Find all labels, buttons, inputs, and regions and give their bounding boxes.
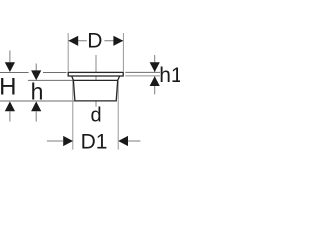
h1 bottom arrow: [150, 76, 160, 86]
D1 left arrow: [63, 136, 73, 146]
h1 extension line top: [125, 71, 160, 73]
h1 extension line bottom: [125, 75, 160, 77]
left chamfer: [72, 76, 74, 80]
h top extension line (internal line extended left): [28, 79, 74, 81]
body bottom extension line (H/h bottom reference): [0, 100, 75, 102]
svg-text:h1: h1: [159, 64, 180, 87]
D1 dimension left tail: [47, 140, 63, 142]
flange top extension line (H top reference): [0, 72, 29, 74]
h1 dimension vertical line: [154, 55, 156, 72]
svg-text:d: d: [90, 105, 101, 127]
D right extension line: [122, 33, 124, 71]
body outline: [73, 80, 117, 101]
D left extension line: [67, 33, 69, 71]
D right arrow: [113, 36, 123, 46]
H bottom arrow: [5, 101, 15, 111]
flange outline: [68, 72, 123, 76]
D1 dimension right tail: [128, 140, 140, 142]
H top arrow: [5, 62, 15, 72]
centerline: [95, 55, 97, 107]
svg-text:h: h: [31, 78, 44, 104]
D1 left extension line: [72, 81, 74, 150]
h bottom tail: [35, 111, 37, 122]
svg-text:D: D: [87, 30, 102, 53]
H dimension top tail: [9, 51, 11, 64]
D dimension line left segment: [68, 40, 86, 42]
svg-text:H: H: [0, 74, 16, 101]
H bottom tail: [9, 111, 11, 122]
h1 top arrow: [150, 62, 160, 72]
h top arrow: [31, 70, 41, 80]
D dimension line right segment: [104, 40, 123, 42]
D left arrow: [68, 36, 78, 46]
h dimension top tail: [35, 64, 37, 72]
D1 right arrow: [118, 136, 128, 146]
right chamfer: [118, 76, 120, 80]
h bottom arrow: [31, 101, 41, 111]
D1 right extension line: [117, 81, 119, 150]
svg-text:D1: D1: [81, 131, 108, 154]
